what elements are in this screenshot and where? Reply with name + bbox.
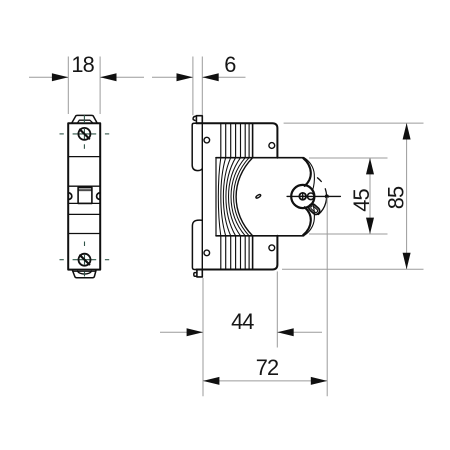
toggle handle hatch [79, 188, 92, 190]
front section line 3 (toggle recess bottom) [68, 202, 100, 204]
rivet bottom left [204, 250, 210, 256]
arrow 6 right [202, 73, 218, 81]
rivet top right [269, 143, 275, 149]
toggle knob [291, 185, 314, 208]
right notch [97, 193, 100, 200]
dim 85 line [406, 123, 408, 269]
dimension texts [71, 52, 408, 380]
front bottom tab [72, 270, 96, 278]
arrow 85 top [403, 123, 411, 139]
band separator bottom [216, 235, 304, 237]
din plate top hook [193, 116, 196, 120]
front bottom tab arc [78, 271, 92, 274]
din plate face [201, 116, 203, 277]
fan curves middle band [218, 158, 252, 236]
din plate bottom tab [197, 270, 202, 277]
middle band left edge [215, 158, 217, 236]
centerlines (green) front view [60, 115, 110, 277]
petal top inner [303, 158, 311, 186]
svg-text:45: 45 [349, 189, 374, 212]
phantom arc dash 2 [318, 189, 326, 215]
dim 18 ext lines [67, 57, 69, 115]
bottom screw [79, 254, 91, 266]
ribs top band [221, 123, 253, 158]
front section line 1 [68, 156, 100, 158]
dim 72 line [203, 380, 327, 382]
front section line 5 [68, 233, 100, 235]
dim 44 line [160, 331, 203, 333]
knob small circle with cross [299, 193, 306, 200]
arrow 72 left [203, 377, 219, 385]
dim 44 ext lines [202, 278, 204, 348]
svg-text:72: 72 [256, 355, 279, 380]
petal top outer [304, 158, 315, 191]
dim 45 line [369, 158, 371, 234]
petal bottom inner [303, 207, 311, 235]
front bottom tab inner line [73, 270, 95, 272]
left notch [69, 193, 72, 200]
rivet top left [204, 137, 210, 143]
dim 85 ext lines [284, 122, 424, 124]
arrow 18 right [100, 73, 116, 81]
top screw [78, 128, 90, 140]
body top edge [196, 123, 277, 158]
phantom arc dash 1 [318, 178, 322, 182]
bottom screw crosshair [73, 259, 97, 261]
lever [307, 203, 321, 216]
dim 18 line [29, 76, 68, 78]
svg-text:6: 6 [224, 52, 236, 77]
din plate bottom hook [194, 273, 197, 277]
arrow 18 left [52, 73, 68, 81]
body bottom edge [196, 236, 277, 270]
dim 45 ext lines [309, 157, 388, 159]
arrow 72 right [311, 377, 327, 385]
front section line 4 [68, 213, 100, 215]
svg-text:18: 18 [71, 52, 94, 77]
toggle handle [78, 187, 92, 203]
arrow 44 left [187, 328, 203, 336]
din plate bottom grip [192, 220, 202, 269]
petal bottom outer [304, 203, 315, 236]
front top tab inner step [77, 120, 93, 123]
arrow 45 top [366, 158, 374, 174]
dim 6 line [152, 76, 193, 78]
arrow 44 right [277, 328, 293, 336]
arrows [52, 73, 411, 385]
arrow 85 bottom [403, 253, 411, 269]
din plate top grip [192, 123, 202, 170]
front body outline [68, 123, 100, 269]
front section line 2 (toggle recess top) [68, 185, 100, 187]
knob centerline [287, 195, 340, 197]
rivet bottom right [269, 245, 275, 251]
band separator top [216, 157, 304, 159]
dim 72 ext lines [202, 348, 204, 397]
slot oval [255, 194, 261, 199]
svg-text:85: 85 [383, 186, 408, 209]
arrow 6 left [177, 73, 193, 81]
top screw crosshair [73, 133, 97, 135]
ribs bottom band [221, 236, 253, 270]
arrow 45 bottom [366, 218, 374, 234]
svg-text:44: 44 [231, 309, 254, 334]
knob small circle right [308, 193, 315, 200]
front top tab [72, 115, 98, 123]
dim 6 ext lines [192, 57, 194, 116]
din plate top tab [196, 116, 202, 124]
